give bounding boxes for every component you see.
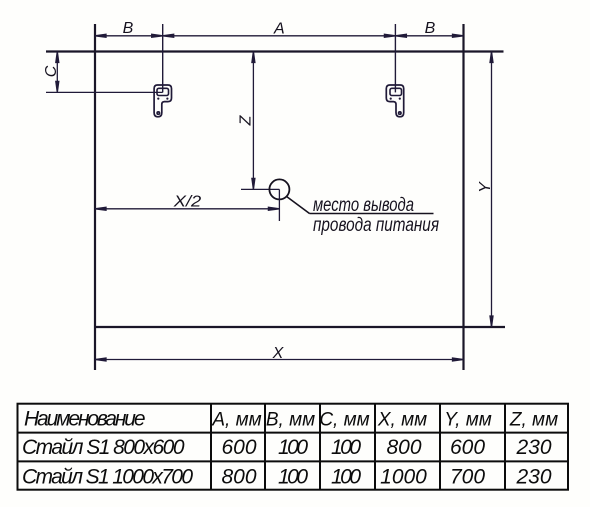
svg-text:100: 100 (331, 436, 361, 459)
dimension X (95, 358, 464, 361)
svg-text:C, мм: C, мм (319, 409, 369, 430)
table header row (24, 407, 558, 430)
svg-text:700: 700 (450, 466, 485, 489)
svg-text:100: 100 (331, 466, 361, 489)
bracket right centerline (394, 24, 396, 92)
bracket right (386, 85, 403, 117)
svg-text:A: A (273, 21, 285, 38)
circle center extension (278, 189, 280, 221)
svg-text:B: B (123, 20, 134, 37)
svg-text:X/2: X/2 (173, 194, 202, 211)
svg-text:600: 600 (450, 436, 485, 459)
table row 1 (22, 436, 552, 459)
table grid (18, 404, 569, 490)
svg-text:Стайл S1 800x600: Стайл S1 800x600 (22, 436, 185, 459)
leader line (287, 197, 434, 214)
svg-text:провода питания: провода питания (313, 215, 439, 236)
svg-text:B, мм: B, мм (266, 409, 315, 430)
svg-text:100: 100 (278, 466, 308, 489)
table row 2 (22, 466, 552, 489)
mirror outline (46, 24, 505, 370)
svg-text:1000: 1000 (380, 466, 427, 489)
svg-text:место вывода: место вывода (313, 195, 414, 216)
svg-text:X, мм: X, мм (377, 409, 427, 430)
svg-text:800: 800 (386, 436, 421, 459)
svg-text:230: 230 (515, 466, 551, 489)
svg-text:Z, мм: Z, мм (509, 409, 558, 430)
svg-text:Наименование: Наименование (24, 407, 146, 430)
svg-text:A, мм: A, мм (211, 409, 261, 430)
bracket left centerline (162, 24, 164, 92)
dimension C (46, 52, 163, 93)
svg-text:C: C (43, 65, 60, 77)
svg-text:X: X (272, 345, 285, 362)
svg-text:800: 800 (221, 466, 256, 489)
dimension line B A B (95, 34, 464, 37)
svg-text:Y: Y (477, 181, 494, 193)
svg-text:100: 100 (278, 436, 308, 459)
dimension X/2 (95, 207, 279, 210)
dimension Z (241, 52, 279, 190)
svg-text:Y, мм: Y, мм (444, 409, 492, 430)
power wire outlet circle (269, 179, 289, 199)
dimension Y (490, 52, 493, 328)
bracket left (154, 85, 171, 117)
svg-text:B: B (425, 20, 436, 37)
svg-text:Стайл S1 1000x700: Стайл S1 1000x700 (22, 466, 193, 489)
svg-text:600: 600 (221, 436, 256, 459)
svg-text:230: 230 (515, 436, 551, 459)
svg-text:Z: Z (238, 114, 255, 126)
